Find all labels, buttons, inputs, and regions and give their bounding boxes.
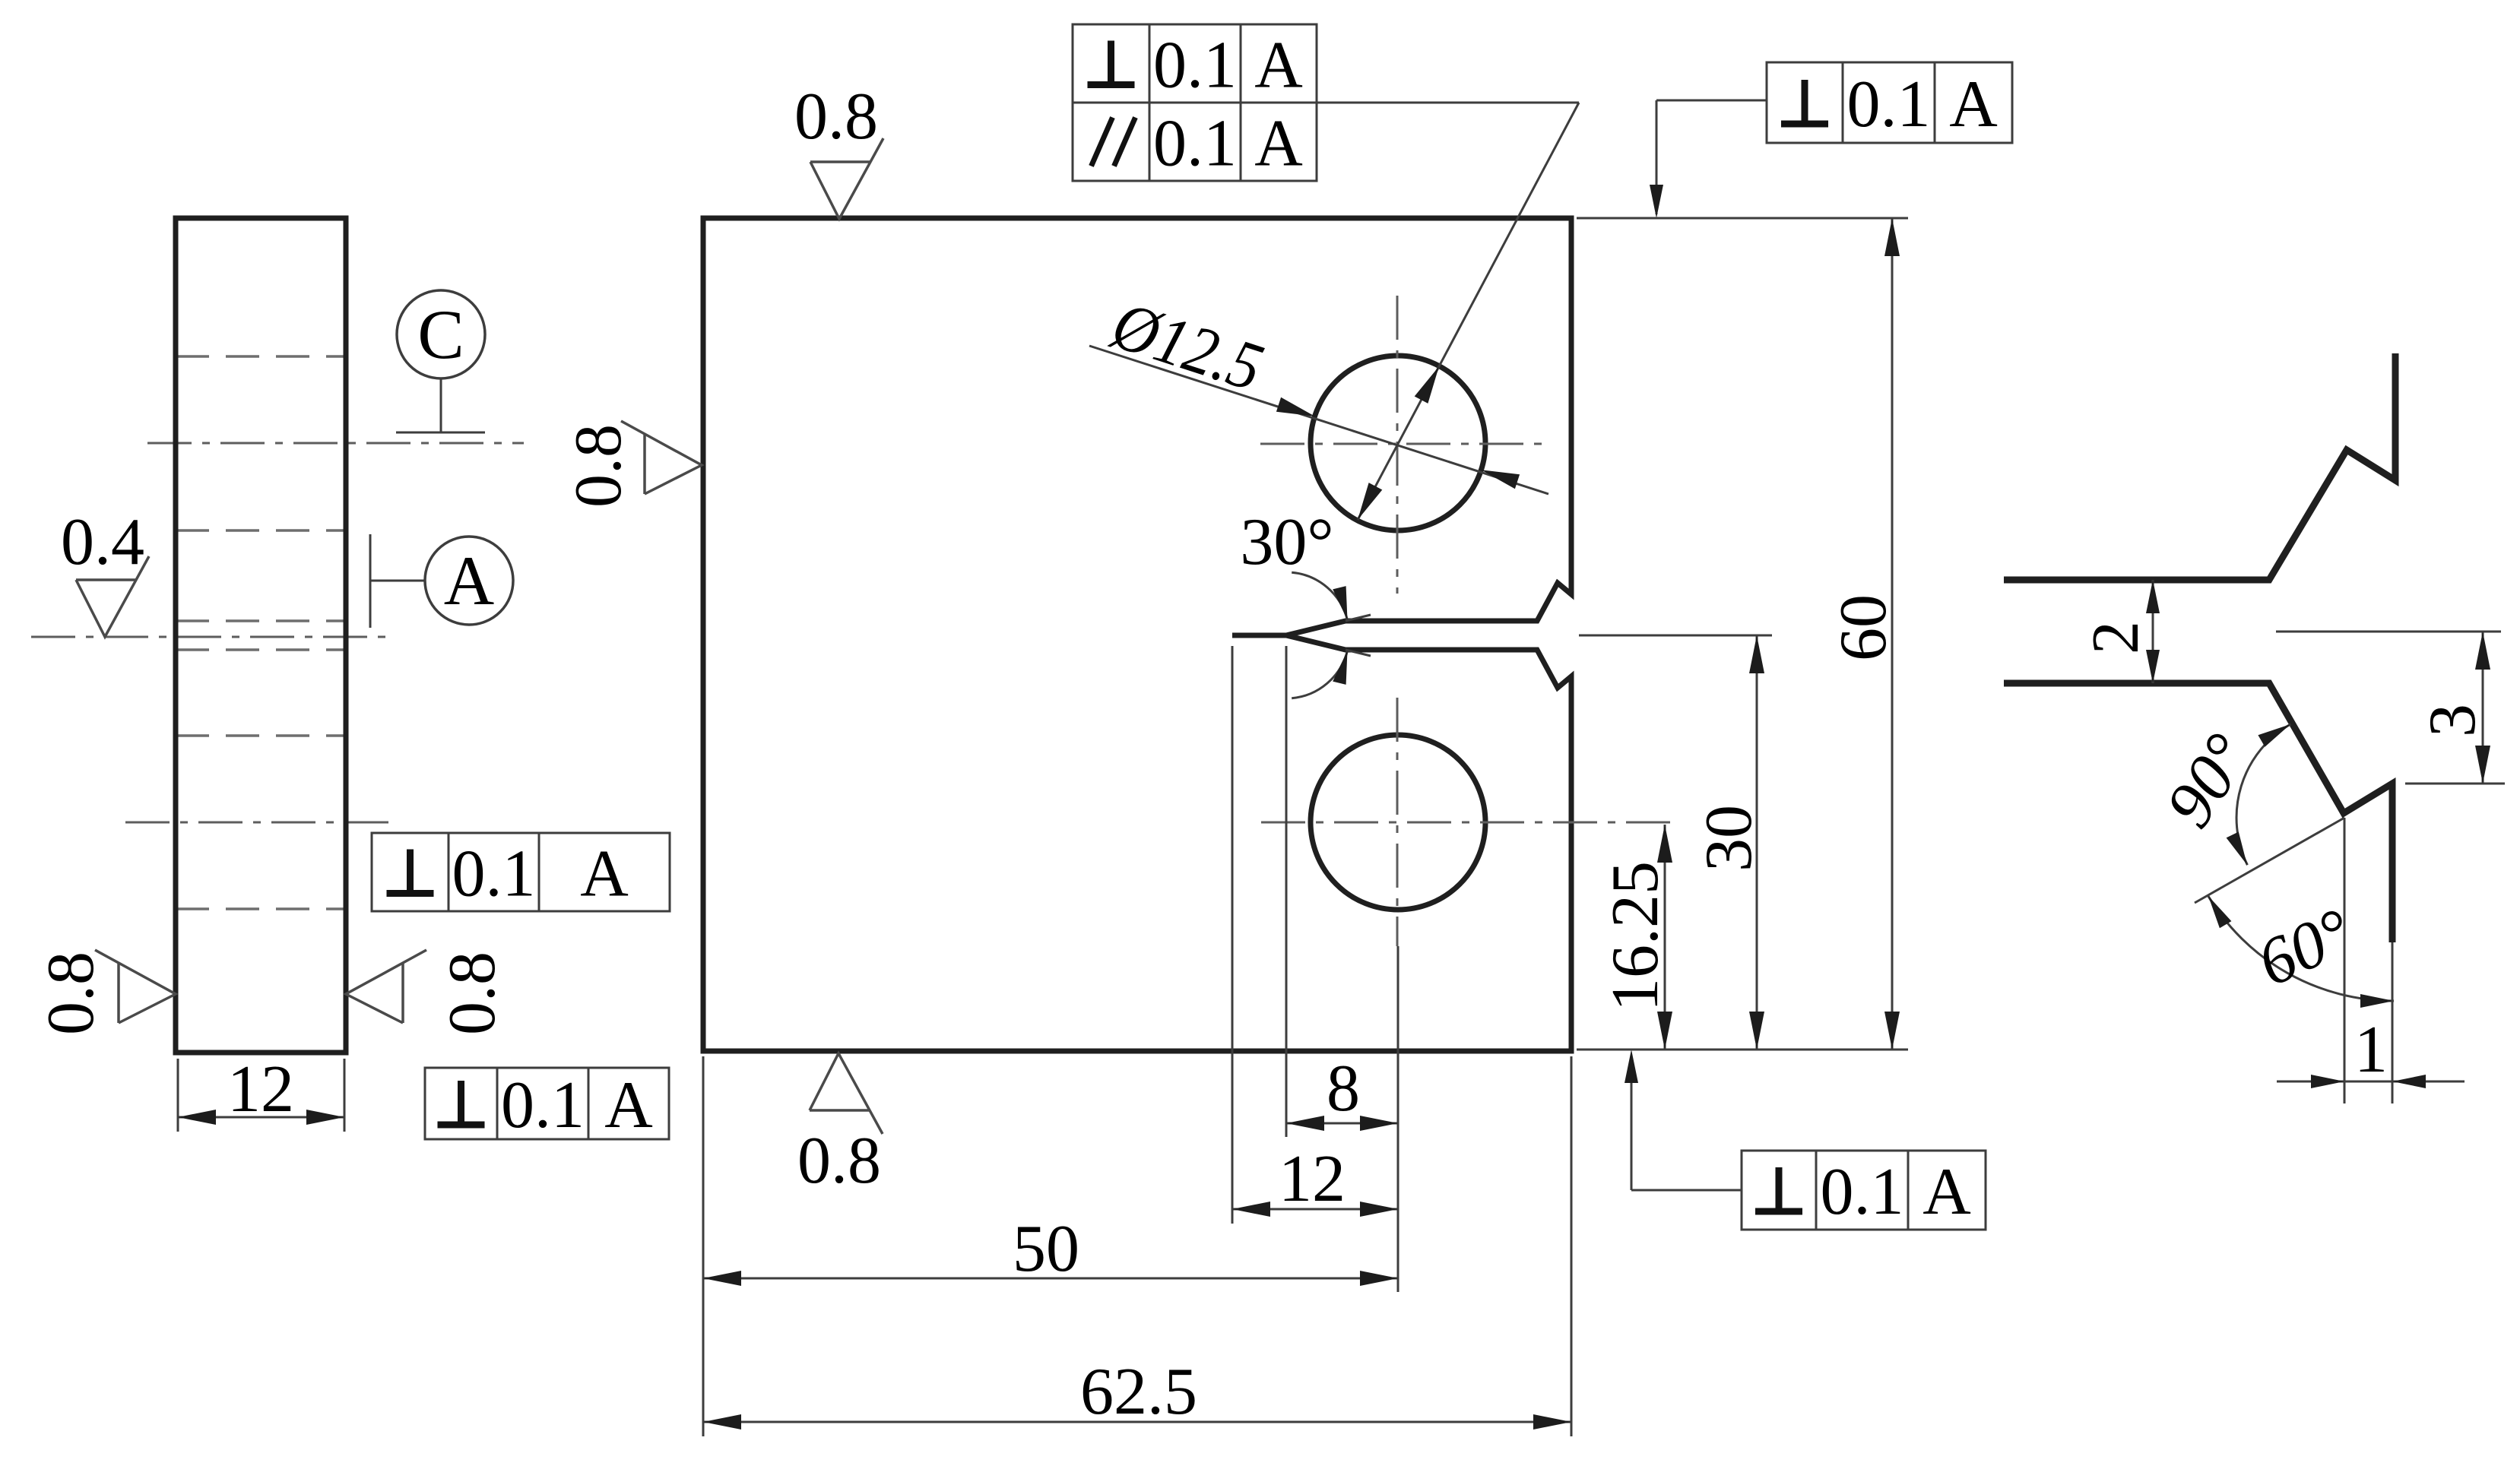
svg-text:16.25: 16.25	[1599, 861, 1672, 1012]
svg-text:0.1: 0.1	[1153, 107, 1237, 181]
svg-text:0.1: 0.1	[501, 1069, 585, 1142]
svg-text:60: 60	[1827, 594, 1900, 661]
svg-text:8: 8	[1327, 1052, 1360, 1126]
svg-text:A: A	[1949, 68, 1998, 141]
svg-text:0.8: 0.8	[794, 80, 878, 154]
svg-text:0.1: 0.1	[1847, 68, 1931, 141]
svg-text:C: C	[417, 296, 464, 373]
svg-text:A: A	[604, 1069, 653, 1142]
svg-text:A: A	[1254, 29, 1303, 103]
svg-text:12: 12	[227, 1053, 294, 1126]
svg-text:62.5: 62.5	[1080, 1355, 1197, 1429]
svg-text:A: A	[1254, 107, 1303, 181]
svg-text:50: 50	[1013, 1212, 1079, 1286]
svg-text:0.1: 0.1	[1153, 29, 1237, 103]
svg-text:A: A	[580, 837, 629, 911]
svg-text:0.1: 0.1	[1821, 1155, 1904, 1229]
svg-text:30: 30	[1692, 805, 1766, 872]
svg-text:0.1: 0.1	[452, 837, 536, 911]
svg-text:0.8: 0.8	[436, 951, 509, 1035]
svg-text:30°: 30°	[1240, 505, 1333, 579]
svg-text:2: 2	[2079, 621, 2153, 654]
svg-text:0.8: 0.8	[797, 1124, 881, 1198]
svg-text:0.8: 0.8	[562, 424, 636, 508]
svg-text:A: A	[1922, 1155, 1971, 1229]
svg-text:3: 3	[2416, 704, 2490, 737]
svg-text:12: 12	[1279, 1142, 1346, 1216]
svg-text:0.8: 0.8	[34, 951, 108, 1035]
svg-text:A: A	[444, 542, 494, 619]
svg-text:1: 1	[2354, 1013, 2388, 1087]
svg-text:0.4: 0.4	[61, 505, 144, 579]
